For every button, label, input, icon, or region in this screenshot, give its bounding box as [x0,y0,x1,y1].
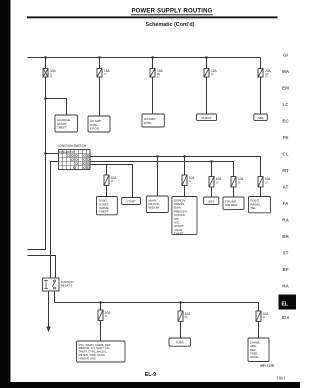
fuse 10A (f/pump) [231,177,244,188]
side tab CL [283,152,289,157]
side tab LC [283,102,290,107]
svg-text:LC: LC [283,102,290,107]
svg-text:10A: 10A [265,177,272,181]
bottom accessory bus wire [55,303,259,312]
figure code MEL113D [260,364,275,368]
svg-text:THEFT: THEFT [57,125,67,129]
footer serial 1001 [276,375,286,380]
junction dots bottom bus [99,301,181,303]
svg-text:Schematic (Cont'd): Schematic (Cont'd) [146,22,195,28]
svg-text:ASCD: ASCD [250,355,259,359]
svg-text:GI: GI [283,53,288,58]
svg-text:RELAY-1: RELAY-1 [61,283,73,287]
ignition switch table [59,150,91,170]
fuse 10A (bottom 2 turn) [178,311,191,322]
top battery bus wire [28,58,261,69]
svg-text:10A: 10A [111,176,118,180]
svg-text:EL-9: EL-9 [145,372,156,378]
load box H/LAMP DTRL F/FOG [88,116,110,132]
svg-text:10A: 10A [185,312,192,316]
wire drop to MAIN box [157,157,159,197]
svg-text:ST: ST [283,251,289,256]
svg-text:10A: 10A [238,177,245,181]
svg-text:FE: FE [283,135,289,140]
fuse 20A (no.5) [258,69,272,79]
wire p/ant fuse to box [260,187,262,197]
side tab GI [283,53,288,58]
subtitle [146,22,195,28]
page header title [131,9,213,15]
side tab ST [283,251,289,256]
svg-text:10A: 10A [189,176,196,180]
svg-text:BF: BF [283,267,289,272]
wire bus to fuse 3 [152,58,154,69]
wire drop to fuse (tall box) [184,157,186,176]
side tab HA [282,284,289,289]
fuse 10A (acc) [104,175,117,186]
load box ABS [254,114,267,121]
side tab MA [282,69,290,74]
side tab MT [282,168,289,173]
junction dots bus row1 [156,155,185,157]
svg-text:10A: 10A [216,177,223,181]
fuse 15A (no.4) [204,69,218,78]
svg-text:THEFT: THEFT [99,210,109,214]
wire fuse3 to box [152,77,154,114]
svg-text:TEL: TEL [251,206,257,210]
svg-text:START: START [126,200,136,204]
wire drop to SRS fuse [211,162,213,177]
wire branch to charge box [46,99,67,116]
side tab EC [282,119,289,124]
side tab EM [282,86,289,91]
load box MAIN [146,196,168,213]
junction dot bus row2 [210,160,212,162]
svg-text:15A: 15A [157,69,164,73]
wire fuse2 to box [99,77,101,116]
wire acc fuse to S/SIG box [106,186,108,197]
svg-text:30A: 30A [50,69,57,73]
fuse 10A (srs) [209,177,222,188]
side tab IDX [282,315,290,320]
load box CHARGE/START/THEFT [55,115,78,132]
wire bus to fuse 2 [99,58,101,69]
load box SRS [204,197,219,204]
wire table left exit row2 down to relay [51,162,59,279]
load box CHIME group [248,338,269,362]
wire relay to bottom bus [54,291,56,303]
wire stub left (battery feed 2) to relay [28,256,56,279]
junction dots on top bus [44,56,207,58]
svg-text:MIRROR, A/T, SHIFT, A/C,: MIRROR, A/T, SHIFT, A/C, [79,346,111,350]
wire fuse to TURN box [180,322,182,339]
svg-text:DTRL: DTRL [144,121,152,125]
svg-text:HA: HA [282,284,289,289]
wire table left exit row1 to fuse1 wire [44,152,58,154]
wire ignition bus row1 [90,157,261,177]
left scan border [0,0,11,388]
side tab AT [283,185,289,190]
wire fuse5 to box [260,77,262,114]
relay name label [61,280,74,288]
svg-text:METER, TIME, ASCD,: METER, TIME, ASCD, [79,353,106,357]
fusible link 30A [43,69,57,79]
svg-text:THEFT, DTRL, BACK/L,: THEFT, DTRL, BACK/L, [79,350,108,354]
svg-text:IGNITION SWITCH: IGNITION SWITCH [59,144,87,148]
wire egrc fuse to tall box [184,186,186,197]
load box S/SIG [97,197,118,215]
side tab BR [282,234,289,239]
svg-text:AT: AT [283,185,289,190]
fuse 15A (no.2) [97,69,111,78]
load box START [122,198,141,205]
svg-text:10A: 10A [105,311,112,315]
svg-text:MEL113D: MEL113D [260,364,275,368]
wire f/pump fuse to box [233,187,235,197]
arrow terminal (to start signal) [46,327,51,333]
relay IGNITION RELAY-1 [43,278,60,291]
fuse 10A (egrc) [182,175,195,186]
wire drop row3 to acc fuse [106,165,108,176]
svg-text:15A: 15A [104,69,111,73]
svg-text:ABS: ABS [257,116,263,120]
svg-text:ST: ST [71,151,75,154]
wire ignition bus row3 to START [90,165,133,198]
wire drop to fuse [180,303,182,312]
svg-text:MT: MT [282,168,289,173]
load box P/ANT [249,197,271,213]
wire bus to fuse 4 [206,58,208,69]
junction node at charge branch [44,97,46,99]
svg-text:F/FOG: F/FOG [90,126,100,130]
svg-text:BR: BR [282,234,289,239]
fuse 10A (bottom 1) [98,310,111,321]
svg-text:INJECT: INJECT [201,116,212,120]
wire stub left (battery feed 1) [28,249,46,251]
svg-text:TURN: TURN [176,341,184,345]
svg-text:1001: 1001 [276,375,286,380]
svg-text:EC: EC [282,119,289,124]
footer page label EL-9 [145,372,156,378]
svg-text:VSS, WARN, CHIME, DEF,: VSS, WARN, CHIME, DEF, [79,343,112,347]
svg-text:H/REAR, SRS: H/REAR, SRS [79,356,96,360]
svg-text:MA: MA [282,69,290,74]
svg-text:RA: RA [282,218,289,223]
wire fuse to big load box [100,321,102,342]
load box EGRC tall [172,197,197,236]
fuse 10A (bottom 3 chime) [256,311,269,322]
wire bus to fuse 1 [45,58,47,69]
svg-text:10A: 10A [263,312,270,316]
wire fuse4 to box [206,77,208,114]
side tab FE [283,135,289,140]
wire fuse1 main vertical [45,77,47,250]
svg-text:THEFT: THEFT [174,232,184,236]
svg-text:FA: FA [283,201,290,206]
wire ignition bus row2 [90,162,234,177]
side tab EL highlighted [279,295,297,310]
svg-text:20A: 20A [265,69,272,73]
svg-text:15A: 15A [211,69,218,73]
svg-text:EM: EM [282,86,289,91]
svg-text:EL: EL [282,302,288,308]
load box INJECT [197,114,217,121]
side tab BF [283,267,289,272]
load box TURN [169,338,191,346]
wire relay to arrow terminal [48,291,50,328]
svg-text:POWER SUPPLY ROUTING: POWER SUPPLY ROUTING [131,9,212,15]
wire srs fuse to box [211,187,213,197]
bottom scan border [0,382,300,388]
svg-text:AIR REG: AIR REG [225,203,238,207]
load box F/PUMP [223,197,244,209]
wire drop to fuse [100,303,102,311]
svg-text:W/DOW: W/DOW [148,206,159,210]
svg-text:CL: CL [283,152,289,157]
svg-text:SRS: SRS [208,199,214,203]
wire fuse to CHIME box [258,322,260,339]
side tab FA [283,201,290,206]
ignition switch label [59,144,87,148]
side tab RA [282,218,289,223]
fuse 10A (p/ant) [258,177,271,188]
load box VSS group [77,341,126,362]
svg-text:IDX: IDX [282,315,290,320]
header rule [27,16,278,18]
load box H/LAMP DTRL [142,114,164,127]
fuse 15A (no.3) [150,69,164,79]
